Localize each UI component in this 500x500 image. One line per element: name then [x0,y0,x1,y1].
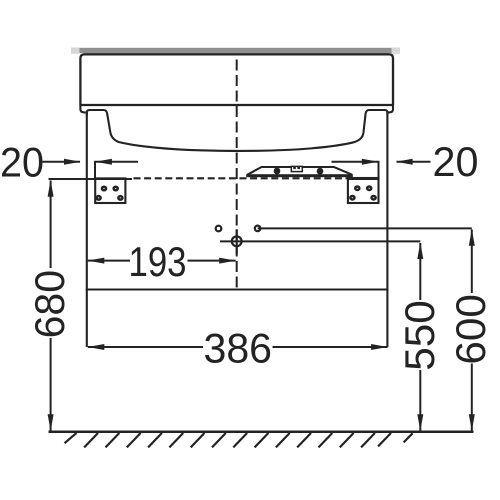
leader line at 550 level (through crosshair) [220,240,420,242]
drain crosshair symbol [232,229,242,254]
washbasin left bottom lip [80,105,85,112]
left mounting bracket [95,178,125,203]
dimension 20 right: extension line above bracket [378,161,380,179]
dimension 386: line and arrows [88,344,388,350]
siphon rail bracket (trapezoid) [246,166,353,177]
right mounting bracket [348,178,379,203]
dimension 600: vertical line and arrows [469,229,475,431]
svg-text:550: 550 [396,300,443,371]
pedestal bottom edge [86,288,389,290]
dimension 550: vertical line and arrows [417,243,423,432]
wall reference line dashed middle segment [134,177,354,179]
ground hatching [65,433,413,448]
pedestal right wall / 386 extension line [386,111,388,347]
washbasin body outline [80,54,393,105]
dimension 20 left: line and arrows [43,159,139,165]
faucet hole circle [216,226,222,232]
wall reference line solid right segment [348,178,379,180]
leader line at 600 level [258,227,472,229]
basin underside: left leg, swoop curve, right leg [87,110,388,151]
overflow hole circle [255,226,261,232]
svg-text:20: 20 [433,138,479,185]
svg-text:20: 20 [0,138,44,185]
svg-text:193: 193 [129,238,187,285]
washbasin right bottom lip [388,105,393,112]
dimension 20 left: extension line above bracket [94,161,96,179]
dimension 193: line and arrows [88,258,236,264]
svg-text:386: 386 [204,325,273,372]
ground line [49,431,474,434]
svg-text:600: 600 [447,294,494,365]
center line (dashed) [236,60,238,290]
wall reference line solid left segment [49,178,133,180]
dimension 20 right: line and arrows [332,159,431,165]
svg-text:680: 680 [26,270,73,339]
pedestal left wall / 386 extension line [86,111,88,347]
washbasin top rim (grey bar) [71,48,400,54]
dimension 680: vertical line and arrows [48,180,54,431]
